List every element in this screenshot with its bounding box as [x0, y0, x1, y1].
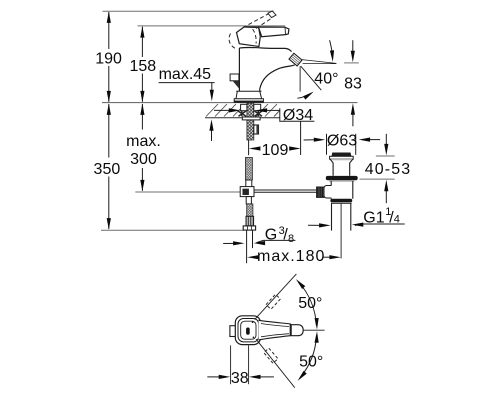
-50deg ray — [256, 339, 295, 388]
mounting blocks beside shank — [241, 104, 247, 110]
svg-text:38: 38 — [231, 370, 249, 387]
dashed lever position lower — [264, 348, 278, 363]
40deg arc arrow — [298, 94, 311, 99]
svg-text:158: 158 — [129, 58, 156, 75]
centre slot (dark) — [246, 328, 250, 335]
40deg: aerator plane wedge line — [302, 60, 337, 64]
svg-text:190: 190 — [95, 51, 122, 68]
deck hatch right — [256, 104, 280, 117]
waste flange taper to neck — [330, 159, 353, 176]
40deg vertical ray — [299, 66, 301, 91]
dashed inner handle line — [253, 29, 257, 44]
waste tailpipe — [331, 203, 333, 230]
deck underside line — [205, 117, 280, 119]
dimension 40-53 ticks — [376, 155, 395, 157]
83 top tick — [344, 62, 359, 64]
waste flange lip — [330, 156, 354, 159]
handle raised position (dashed) — [249, 14, 273, 29]
109 right extension line (spout outlet axis) — [300, 121, 302, 155]
handle body outer — [235, 316, 260, 345]
faucet base plate — [234, 99, 263, 103]
lever arm top view — [259, 320, 291, 340]
G3/8 nut — [243, 226, 255, 230]
centreline right of lever — [303, 329, 324, 331]
40-53 arrows — [385, 134, 387, 145]
supply hose upper segment — [245, 158, 252, 181]
svg-text:max.180: max.180 — [257, 248, 325, 265]
lower 50deg arc — [300, 335, 317, 378]
dimension Ø34 arrows — [214, 109, 231, 111]
cross fitting — [246, 180, 252, 187]
stem below fitting — [246, 197, 251, 204]
350 bottom reference line — [101, 229, 244, 231]
dark wedge under tab — [233, 81, 239, 89]
knurled rod knob — [317, 187, 324, 197]
faucet body and spout outline — [239, 48, 294, 92]
dimension 109 — [249, 146, 261, 150]
threaded shank through deck — [247, 103, 254, 140]
dimension 158 line — [141, 27, 143, 102]
svg-text:8: 8 — [288, 233, 294, 245]
washer under deck — [242, 117, 260, 120]
G3/8 left arrow — [223, 242, 234, 244]
svg-text:G: G — [265, 227, 277, 244]
dimension max.180 — [258, 256, 260, 258]
handle lever horizontal — [244, 27, 289, 37]
lever inner contour — [261, 324, 289, 337]
pop-up rod to drain — [254, 189, 317, 191]
G1 1/4 underline leader — [355, 224, 405, 226]
faucet base flare — [236, 91, 262, 98]
deck hatch left — [206, 104, 241, 117]
hose end fitting — [246, 216, 254, 226]
svg-text:40-53: 40-53 — [365, 161, 411, 178]
G1 1/4 left arrow — [308, 224, 321, 226]
handle body inner contour — [241, 321, 256, 339]
side stub on shank — [254, 125, 259, 134]
svg-text:40°: 40° — [314, 71, 338, 88]
Ø63 arrows — [304, 139, 315, 141]
max.45 down arrow to deck — [211, 83, 213, 91]
aerator (hatched, tilted) — [289, 53, 302, 66]
pop-up knob tab on left — [230, 74, 239, 81]
lever joint line — [289, 324, 291, 336]
handle body middle contour — [238, 319, 259, 342]
+50deg ray — [255, 274, 297, 320]
Ø63 extension bars — [326, 134, 328, 155]
svg-text:max.45: max.45 — [159, 66, 212, 83]
waste centreline / max.180 extension — [340, 203, 342, 258]
max.45 up arrow below deck underside — [211, 130, 213, 141]
supply hose lower segment — [247, 204, 253, 216]
raised lever end cap — [268, 11, 276, 18]
faucet side view — [229, 11, 302, 103]
extension line top (lever max height) — [103, 10, 274, 12]
deck surface line — [102, 102, 358, 104]
centre axis segment (109 left reference) — [248, 140, 250, 155]
svg-text:83: 83 — [344, 76, 362, 93]
handle body — [237, 27, 261, 47]
dark clamp wedges (X-hatched) — [238, 111, 262, 116]
dimension 350 line — [108, 104, 110, 229]
handle swing dashed arc — [229, 34, 235, 49]
waste upper locknut (dark) — [326, 176, 358, 180]
top view of handle — [230, 316, 303, 345]
40deg spout axis ray — [301, 66, 322, 90]
cross fitting dark block — [243, 189, 249, 195]
svg-text:Ø34: Ø34 — [283, 107, 313, 124]
svg-text:350: 350 — [94, 161, 121, 178]
dimension 190 line — [108, 12, 110, 102]
svg-text:max.: max. — [126, 133, 161, 150]
dimension 38 extension lines — [230, 345, 232, 384]
svg-text:109: 109 — [262, 142, 289, 159]
waste lower locknut (dark) — [330, 199, 352, 203]
svg-text:50°: 50° — [299, 354, 323, 371]
38 arrows — [207, 376, 220, 378]
dimension max.300 line — [141, 104, 143, 191]
svg-text:Ø63: Ø63 — [327, 132, 357, 149]
max.300 reference line to cross fitting — [135, 191, 241, 193]
dimension 83 arrows — [352, 40, 354, 52]
40deg leader arrow onto wedge — [330, 40, 332, 51]
dashed lever position upper — [266, 294, 280, 309]
Ø34 label shelf — [280, 108, 315, 121]
lever end cap — [291, 325, 303, 336]
index dots — [252, 322, 254, 324]
G3/8 underline leader — [257, 240, 296, 242]
waste side port boss — [324, 186, 331, 199]
svg-text:300: 300 — [130, 151, 157, 168]
spout stub left — [230, 326, 237, 337]
pop-up waste set — [304, 132, 381, 258]
waste body — [331, 181, 353, 199]
waste plug top disc (dark) — [332, 153, 352, 157]
svg-text:50°: 50° — [298, 295, 322, 312]
upper 50deg arc — [298, 282, 316, 326]
extension line 158 (handle top) — [138, 25, 286, 27]
connection pipe walls — [246, 230, 248, 263]
